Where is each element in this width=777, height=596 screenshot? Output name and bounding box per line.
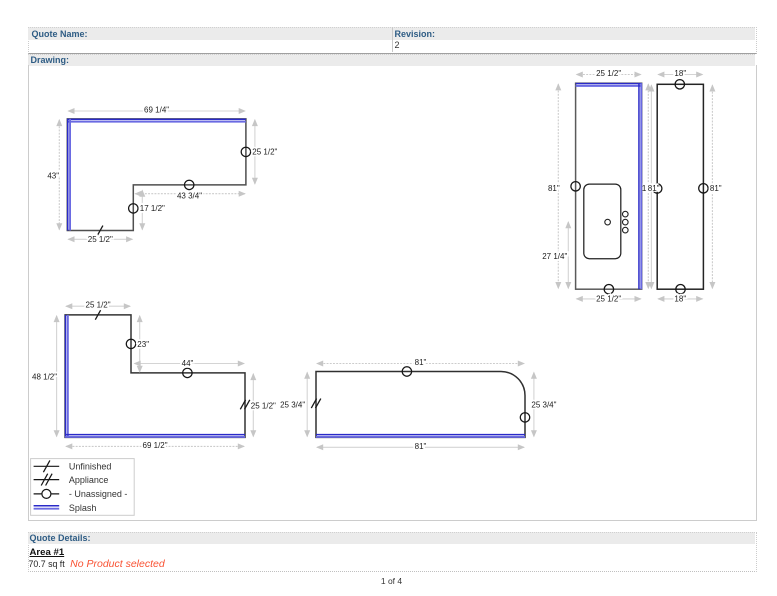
- appliance edge double-slash marker piece4 right edge: [240, 400, 245, 410]
- splash (backsplash) double blue line on piece1 left edge: [67, 119, 69, 231]
- dimension piece1 inner height 17 1/2: [141, 191, 143, 230]
- area name: [30, 547, 65, 558]
- quote header table: [28, 27, 757, 54]
- edge marker (unassigned) piece4 notch vertical edge: [126, 339, 135, 348]
- legend row: unassigned: [34, 493, 60, 495]
- svg-text:69 1/4": 69 1/4": [144, 106, 169, 115]
- faucet hole 1: [623, 211, 629, 217]
- sink drain hole: [605, 219, 611, 225]
- svg-text:18": 18": [674, 69, 686, 78]
- dimension piece1 inner width 43 3/4: [135, 193, 245, 195]
- legend row: splash: [34, 505, 60, 507]
- svg-text:81": 81": [710, 184, 722, 193]
- svg-text:1: 1: [642, 184, 647, 193]
- edge marker (unassigned) piece2 left edge: [571, 182, 580, 191]
- edge marker (unassigned) piece3 bottom edge: [676, 285, 685, 294]
- svg-text:25 1/2": 25 1/2": [251, 402, 276, 411]
- edge marker (unassigned) piece5 right edge: [520, 413, 529, 422]
- svg-text:25 1/2": 25 1/2": [596, 295, 621, 304]
- edge marker (unassigned) piece4 inner horizontal edge: [183, 368, 192, 377]
- svg-text:81": 81": [415, 442, 427, 451]
- splash (backsplash) double blue line on piece2 top edge: [576, 83, 642, 85]
- drawing table header: [28, 54, 755, 66]
- legend row: unfinished: [34, 465, 60, 467]
- countertop piece 5 (rectangle with rounded top-right corner) outline: [316, 372, 525, 438]
- dimension piece4 bottom 69 1/2: [66, 445, 244, 447]
- svg-text:18": 18": [674, 295, 686, 304]
- splash (backsplash) double blue line on piece2 right edge: [638, 83, 640, 289]
- svg-text:44": 44": [182, 359, 194, 368]
- area info: [29, 558, 165, 570]
- dimension piece4 left 48 1/2: [56, 316, 58, 437]
- edge marker (unassigned) piece3 top edge: [675, 80, 684, 89]
- edge marker (unassigned) piece2 bottom edge: [604, 285, 613, 294]
- splash (backsplash) double blue line on piece1 top edge: [67, 118, 246, 120]
- dimension piece3 top 18: [658, 74, 702, 76]
- svg-text:25 1/2": 25 1/2": [252, 148, 277, 157]
- dimension piece4 right 25 1/2: [252, 374, 254, 437]
- dimension piece4 top 25 1/2: [66, 305, 130, 307]
- countertop piece 2 (tall rectangle with sink cutout) outline: [576, 83, 642, 289]
- dimension piece1 top 69 1/4: [68, 110, 245, 112]
- svg-text:48 1/2": 48 1/2": [32, 373, 57, 382]
- revision value 2: [395, 40, 400, 50]
- dimension piece3 left 81: [650, 85, 652, 288]
- splash (backsplash) double blue line on piece4 left edge: [65, 315, 67, 438]
- dimension piece2 top 25 1/2: [577, 74, 641, 76]
- countertop piece 3 (narrow tall rectangle) outline: [657, 84, 703, 289]
- legend row: appliance: [34, 479, 60, 481]
- overlapped labels "1" + "81" between pieces 2 and 3: [642, 183, 658, 192]
- unfinished edge slash marker piece4 top edge: [95, 310, 100, 320]
- countertop piece 1 (top-left L shape) outline: [67, 119, 246, 231]
- legend box: [31, 459, 135, 516]
- svg-text:Splash: Splash: [69, 503, 97, 513]
- dimension piece2 bottom 25 1/2: [577, 298, 641, 300]
- quote details table: [28, 532, 757, 572]
- countertop piece 4 (bottom-left L shape) outline: [65, 315, 245, 438]
- edge marker (unassigned) piece5 top edge: [402, 367, 411, 376]
- svg-text:81": 81": [548, 184, 560, 193]
- svg-text:25 1/2": 25 1/2": [88, 235, 113, 244]
- dimension piece1 right 25 1/2: [254, 120, 256, 184]
- svg-text:23": 23": [137, 340, 149, 349]
- svg-text:81": 81": [415, 358, 427, 367]
- dimension piece5 left 25 3/4: [306, 373, 308, 437]
- svg-text:81": 81": [648, 184, 660, 193]
- dimension piece5 top 81: [317, 363, 524, 365]
- svg-text:17 1/2": 17 1/2": [140, 204, 165, 213]
- splash (backsplash) double blue line on piece4 bottom edge: [65, 434, 245, 436]
- dimension piece5 bottom 81: [317, 446, 524, 448]
- faucet hole 3: [623, 227, 629, 233]
- drawing cell border: [28, 65, 757, 521]
- svg-text:25 1/2": 25 1/2": [86, 301, 111, 310]
- svg-text:- Unassigned -: - Unassigned -: [69, 489, 128, 499]
- svg-text:43 3/4": 43 3/4": [177, 192, 202, 201]
- edge marker (unassigned) piece1 inner horizontal edge: [185, 180, 194, 189]
- unfinished edge slash marker piece1 bottom edge: [98, 226, 103, 236]
- svg-text:27 1/4": 27 1/4": [542, 252, 567, 261]
- svg-text:25 3/4": 25 3/4": [531, 401, 556, 410]
- svg-text:Unfinished: Unfinished: [69, 462, 112, 472]
- edge marker (unassigned) piece1 right edge: [241, 147, 250, 156]
- edge marker (unassigned) piece3 right edge: [699, 184, 708, 193]
- dimension piece1 bottom 25 1/2: [68, 238, 132, 240]
- edge marker (unassigned) piece3 left edge: [653, 184, 662, 193]
- svg-text:25 1/2": 25 1/2": [596, 69, 621, 78]
- svg-text:Appliance: Appliance: [69, 475, 109, 485]
- dimension piece4 notch 23: [139, 316, 141, 372]
- header column divider: [392, 27, 393, 52]
- dimension piece3 bottom 18: [658, 298, 702, 300]
- svg-text:43": 43": [47, 171, 59, 180]
- dimension piece4 inner width 44: [135, 363, 245, 365]
- faucet hole 2: [623, 219, 629, 225]
- dimension piece2 right 81: [647, 84, 649, 288]
- dimension piece1 left 43: [58, 120, 60, 230]
- dimension piece2 left 81: [557, 84, 559, 288]
- dimension piece3 right 81: [711, 85, 713, 288]
- dimension piece5 right 25 3/4: [533, 373, 535, 437]
- page footer: [28, 576, 755, 586]
- splash (backsplash) double blue line on piece5 bottom edge: [316, 434, 525, 436]
- svg-text:69 1/2": 69 1/2": [143, 441, 168, 450]
- appliance edge double-slash marker piece5 left edge: [311, 399, 316, 409]
- edge marker (unassigned) piece1 inner vertical edge: [129, 204, 138, 213]
- svg-text:25 3/4": 25 3/4": [280, 401, 305, 410]
- dimension piece2 sink-to-bottom 27 1/4: [567, 222, 569, 288]
- sink cutout: [584, 184, 621, 259]
